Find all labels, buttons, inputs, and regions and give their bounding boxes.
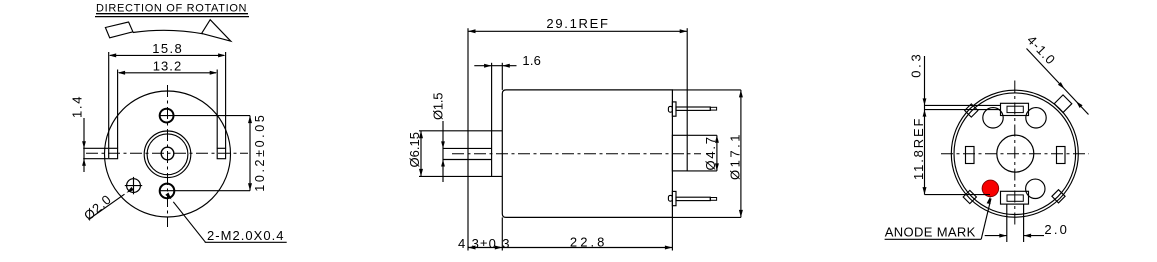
- svg-text:22.8: 22.8: [570, 234, 605, 249]
- svg-text:15.8: 15.8: [152, 41, 182, 56]
- svg-text:Ø1.5: Ø1.5: [431, 92, 446, 120]
- svg-text:Ø4.7: Ø4.7: [703, 137, 718, 171]
- svg-text:11.8REF: 11.8REF: [911, 118, 926, 180]
- svg-text:4.3±0.3: 4.3±0.3: [458, 236, 510, 251]
- svg-text:1.4: 1.4: [70, 96, 85, 118]
- svg-text:13.2: 13.2: [153, 59, 182, 74]
- svg-text:1.6: 1.6: [522, 53, 541, 68]
- svg-text:Ø6.15: Ø6.15: [407, 132, 422, 168]
- svg-text:2-M2.0X0.4: 2-M2.0X0.4: [207, 228, 284, 243]
- svg-text:10.2±0.05: 10.2±0.05: [253, 115, 267, 192]
- svg-text:2.0: 2.0: [1044, 222, 1067, 237]
- svg-text:DIRECTION OF ROTATION: DIRECTION OF ROTATION: [96, 2, 247, 14]
- svg-text:0.3: 0.3: [909, 54, 924, 78]
- svg-text:ANODE MARK: ANODE MARK: [885, 225, 976, 240]
- svg-text:Ø17.1: Ø17.1: [728, 134, 743, 180]
